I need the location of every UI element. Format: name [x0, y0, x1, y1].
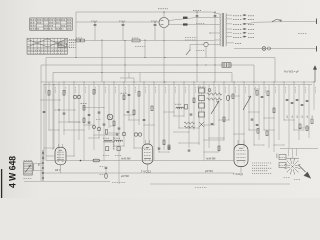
feed wire 3 — [144, 40, 146, 58]
resistor R30 — [83, 118, 85, 123]
resistor R24 — [311, 119, 313, 124]
page edge mark — [1, 169, 3, 198]
tone potentiometer P2 — [243, 96, 251, 110]
power transformer T1 core — [222, 13, 223, 47]
capacitor C30 — [88, 122, 91, 123]
resistor R33 — [168, 145, 170, 150]
power transformer T1 primary winding — [219, 14, 222, 47]
bus wire B1 — [46, 58, 275, 83]
capacitor C15 — [158, 148, 161, 149]
line voltage selector box — [58, 43, 67, 48]
loudspeaker LS with output transformer — [24, 160, 43, 178]
resistor R23 — [306, 126, 308, 131]
capacitor C7 — [88, 115, 91, 116]
bus wire B2 — [41, 65, 254, 82]
left frame wire 2 — [45, 58, 47, 161]
AF signal wire — [46, 158, 234, 161]
capacitor C24 — [291, 103, 294, 104]
resistor R31 — [113, 121, 115, 126]
power transformer T1 secondary winding — [225, 14, 228, 47]
resistor R11 — [133, 110, 135, 115]
tuning capacitor C9 — [107, 114, 113, 120]
feed wire 2 — [124, 41, 126, 83]
dial lamp — [262, 47, 271, 51]
capacitor C5 — [43, 112, 46, 113]
component value labels — [46, 87, 316, 93]
feed wire 5 — [214, 21, 216, 82]
capacitor C23 — [286, 100, 289, 101]
anode resistor Ra1 — [183, 17, 188, 19]
selector boxes — [279, 155, 286, 168]
svg-text:µW 560: µW 560 — [121, 176, 130, 178]
resistor R10 — [151, 106, 153, 111]
electrolytic C35 — [100, 174, 108, 179]
bus junction dots — [75, 57, 234, 83]
resistor R14 — [193, 98, 195, 103]
volume potentiometer P1 — [211, 101, 219, 114]
trimmer C13 — [134, 133, 141, 136]
bus drop wires — [44, 82, 315, 161]
trimmer C31 — [93, 126, 96, 129]
coil L2 — [122, 132, 126, 136]
resistor R7 — [106, 130, 108, 135]
chassis arrow — [313, 66, 317, 83]
hash filter on B2 — [222, 63, 231, 67]
connector wires — [41, 96, 310, 153]
resistor R20 — [257, 129, 259, 134]
dial calibration chart — [27, 38, 76, 54]
speaker feed wire — [24, 181, 110, 183]
resistor network R15 — [207, 89, 223, 101]
transformer tap wires left — [210, 18, 220, 45]
filter capacitor C1b — [151, 21, 158, 41]
capacitor C16 — [168, 147, 171, 148]
anode resistor Ra2 — [183, 23, 188, 25]
feed wire — [101, 40, 103, 82]
heater bus — [44, 84, 312, 86]
wire link — [84, 124, 95, 127]
mains line N — [234, 46, 317, 52]
capacitor C14 — [143, 120, 146, 121]
wire link 4 — [209, 137, 225, 140]
resistor R21 — [266, 131, 268, 136]
feed label — [112, 181, 126, 183]
capacitor C22 — [256, 125, 259, 126]
svg-text:T 3 CL 1: T 3 CL 1 — [233, 172, 243, 176]
wire link 6 — [249, 111, 260, 114]
resistor network R13 — [184, 122, 195, 128]
smoothing capacitor C2 — [193, 11, 201, 20]
trimmer C4 — [73, 95, 80, 98]
tube V1 AF7 — [46, 144, 75, 173]
capacitor C25 — [296, 100, 299, 101]
wire — [118, 161, 120, 185]
left frame wire — [40, 65, 42, 181]
resistor R9 — [138, 92, 140, 97]
wire anode lower — [169, 24, 215, 26]
svg-text:AnW 588: AnW 588 — [120, 158, 131, 161]
svg-text:IIIIIIIII: IIIIIIIII — [277, 153, 279, 158]
step wires — [120, 73, 140, 83]
capacitor C8 — [103, 124, 106, 125]
resistor R6 — [93, 90, 95, 95]
resistor R5 — [81, 104, 87, 110]
resistor R17 — [223, 117, 225, 122]
wire link 2 — [109, 132, 120, 135]
capacitor C36 — [188, 150, 191, 151]
voltage label — [298, 33, 307, 35]
bottom label — [195, 187, 207, 189]
capacitor C6 — [63, 113, 66, 114]
transformer secondary taps — [227, 14, 255, 43]
tube V2 EF11 — [141, 140, 153, 174]
svg-text:PuV 600 = µF: PuV 600 = µF — [284, 70, 299, 73]
resistor R8 — [121, 93, 127, 99]
capacitor C26 — [301, 105, 304, 106]
resistor R19 — [267, 91, 269, 96]
resistor R12 — [163, 140, 165, 145]
pointer arrow — [299, 165, 311, 178]
tube V3 AL4 — [233, 140, 248, 176]
junction — [58, 109, 59, 110]
capacitor C21 — [251, 119, 254, 120]
main HT bus — [41, 81, 315, 83]
resistor R4 — [63, 91, 65, 96]
capacitor C12 — [127, 112, 130, 113]
capacitor C34 — [100, 167, 108, 174]
wire link 5 — [179, 142, 200, 145]
label column — [287, 115, 314, 118]
svg-text:4 W 648: 4 W 648 — [7, 156, 17, 188]
transformer label — [185, 38, 197, 40]
capacitor C3 — [214, 11, 217, 21]
capacitor C27 — [306, 101, 309, 102]
left frame wire 3 — [52, 73, 54, 151]
capacitor C32 — [98, 112, 101, 113]
bus wire B3 — [53, 73, 232, 83]
rectifier tube V4 — [158, 9, 169, 82]
mains line L — [246, 19, 317, 25]
IF transformer IF2 — [175, 104, 188, 109]
voltage divider stub — [58, 45, 70, 47]
resistor R25 — [273, 108, 275, 113]
capacitor C18 — [211, 124, 214, 125]
heater rail — [74, 40, 214, 42]
ground return wire — [150, 183, 290, 185]
reservoir capacitor C0 — [91, 21, 98, 41]
wire anode upper — [169, 18, 215, 21]
resistor R22 — [299, 124, 301, 129]
detector stack — [198, 87, 205, 127]
wire link 3 — [174, 131, 190, 134]
wire — [62, 40, 74, 42]
capacitor C10 — [116, 134, 119, 135]
svg-text:µW 561: µW 561 — [205, 171, 214, 173]
capacitor C33 — [118, 128, 121, 129]
HT rail — [76, 11, 212, 13]
mains switch S1 — [186, 45, 191, 56]
tube data table — [30, 18, 72, 30]
resistor R18 — [254, 89, 260, 95]
value label — [96, 120, 115, 127]
wave band switch S2 — [284, 149, 301, 180]
resistor R34 — [218, 146, 220, 151]
anode link wire — [204, 151, 219, 154]
notes text block — [252, 163, 272, 173]
resistor R1 — [76, 38, 85, 42]
capacitor C11 — [128, 95, 131, 96]
filter choke L0 — [132, 38, 145, 46]
filter capacitor C1a — [119, 21, 126, 41]
wire — [75, 12, 77, 58]
mains fuse F1 — [190, 42, 210, 57]
switch wiring bus — [280, 148, 318, 150]
AVC wire — [41, 171, 234, 178]
resistor R32 — [80, 159, 100, 162]
anode label — [196, 23, 205, 25]
coupling capacitor C19 — [226, 95, 229, 100]
capacitor C17 — [190, 114, 193, 115]
resistor R3 — [48, 91, 50, 96]
terminal strip — [38, 150, 44, 181]
feed wire 4 — [196, 20, 198, 82]
IF transformer IF1 — [103, 137, 123, 155]
resistor R16 — [232, 94, 234, 99]
coil L1 — [97, 127, 101, 131]
wire link 7 — [264, 117, 275, 120]
capacitor C20 — [261, 97, 264, 98]
svg-text:AnW 588: AnW 588 — [205, 158, 216, 161]
svg-text:AF 7: AF 7 — [55, 168, 61, 172]
cathode wire — [76, 21, 159, 23]
